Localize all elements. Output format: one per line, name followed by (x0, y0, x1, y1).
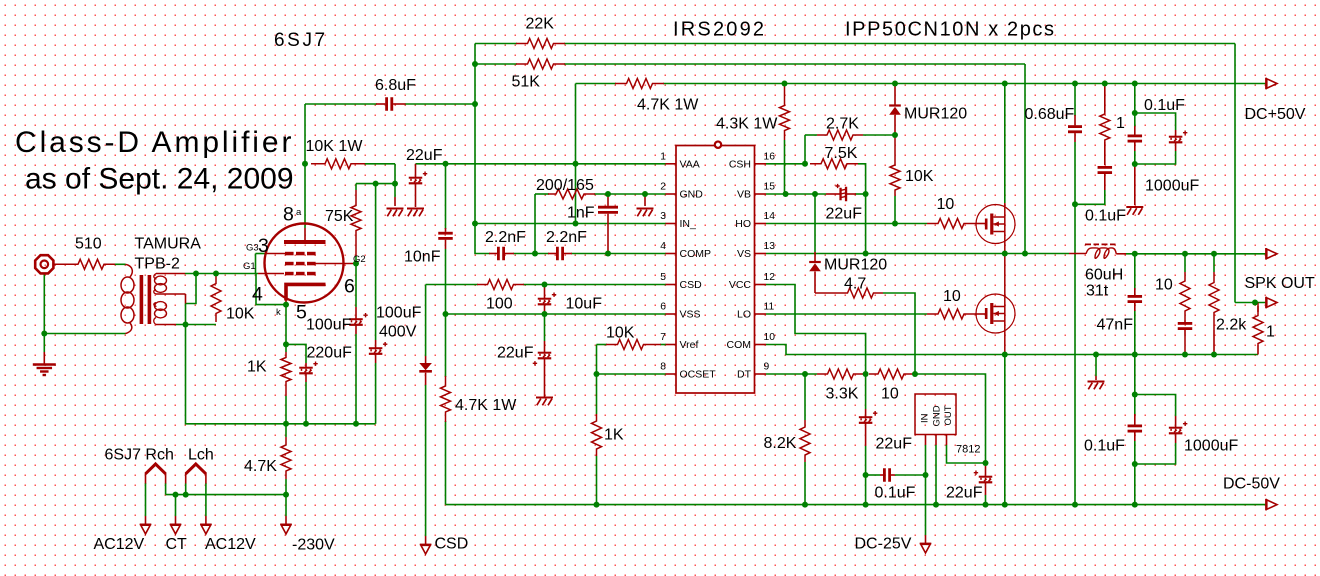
svg-text:COM: COM (727, 339, 752, 351)
svg-text:4.7K 1W: 4.7K 1W (455, 397, 517, 414)
svg-text:400V: 400V (379, 324, 417, 341)
svg-text:HO: HO (735, 218, 751, 230)
svg-text:22uF: 22uF (946, 485, 983, 502)
svg-text:47nF: 47nF (1097, 317, 1134, 334)
svg-text:G1: G1 (243, 261, 256, 272)
svg-text:10: 10 (764, 332, 776, 343)
svg-text:10: 10 (943, 288, 961, 305)
svg-text:510: 510 (75, 236, 102, 253)
svg-text:OUT: OUT (943, 405, 954, 425)
svg-text:1: 1 (1116, 115, 1125, 132)
svg-text:-230V: -230V (292, 537, 335, 554)
svg-text:CSH: CSH (729, 158, 751, 170)
svg-text:0.1uF: 0.1uF (875, 485, 916, 502)
svg-text:6.8uF: 6.8uF (375, 77, 416, 94)
svg-text:AC12V: AC12V (205, 536, 256, 553)
svg-text:1: 1 (1266, 324, 1275, 341)
svg-text:7812: 7812 (956, 444, 980, 456)
svg-text:CSD: CSD (435, 536, 469, 553)
svg-text:75K: 75K (325, 208, 354, 225)
svg-text:2.7K: 2.7K (826, 116, 859, 133)
svg-text:8.2K: 8.2K (764, 435, 797, 452)
svg-text:DT: DT (737, 369, 752, 381)
svg-text:51K: 51K (512, 74, 541, 91)
svg-text:13: 13 (764, 241, 776, 252)
svg-text:1K: 1K (247, 359, 267, 376)
svg-text:22uF: 22uF (876, 436, 913, 453)
svg-text:4.7K 1W: 4.7K 1W (637, 97, 699, 114)
svg-text:3.3K: 3.3K (826, 385, 859, 402)
svg-text:DC-25V: DC-25V (855, 536, 912, 553)
svg-text:MUR120: MUR120 (824, 257, 887, 274)
svg-text:IRS2092: IRS2092 (673, 19, 766, 41)
svg-text:100: 100 (486, 296, 513, 313)
svg-text:6: 6 (660, 302, 666, 313)
svg-text:10uF: 10uF (566, 296, 603, 313)
svg-text:2.2k: 2.2k (1216, 317, 1247, 334)
svg-text:DC-50V: DC-50V (1223, 476, 1280, 493)
svg-text:22K: 22K (526, 15, 555, 32)
svg-text:Class-D Amplifier: Class-D Amplifier (15, 126, 294, 159)
svg-text:1000uF: 1000uF (1145, 178, 1199, 195)
svg-text:OCSET: OCSET (680, 369, 717, 381)
svg-text:5: 5 (296, 302, 307, 324)
svg-text:0.68uF: 0.68uF (1025, 106, 1075, 123)
svg-text:LO: LO (737, 309, 751, 321)
svg-text:100uF: 100uF (306, 317, 352, 334)
svg-text:as of Sept. 24, 2009: as of Sept. 24, 2009 (25, 163, 294, 196)
svg-text:10: 10 (1155, 277, 1173, 294)
svg-text:15: 15 (764, 182, 776, 193)
svg-text:VSS: VSS (680, 309, 701, 321)
svg-text:CSD: CSD (680, 279, 703, 291)
svg-text:GND: GND (932, 405, 943, 426)
svg-text:10K: 10K (606, 325, 635, 342)
svg-text:22uF: 22uF (497, 344, 534, 361)
svg-text:9: 9 (764, 362, 770, 373)
svg-text:8: 8 (660, 362, 666, 373)
svg-text:10K: 10K (226, 306, 255, 323)
svg-text:AC12V: AC12V (94, 536, 145, 553)
svg-text:4: 4 (252, 284, 263, 306)
svg-text:31t: 31t (1086, 283, 1109, 300)
svg-text:0.1uF: 0.1uF (1085, 208, 1126, 225)
svg-text:VAA: VAA (680, 158, 700, 170)
svg-text:3: 3 (660, 211, 666, 222)
svg-text:10K 1W: 10K 1W (306, 138, 364, 155)
svg-text:IN: IN (920, 413, 931, 423)
svg-text:8: 8 (283, 204, 294, 226)
svg-text:16: 16 (764, 151, 776, 162)
svg-text:10: 10 (937, 196, 955, 213)
svg-text:6: 6 (344, 276, 355, 298)
svg-text:1: 1 (660, 151, 666, 162)
svg-text:1nF: 1nF (567, 205, 595, 222)
svg-text:2: 2 (660, 182, 666, 193)
svg-text:4.3K 1W: 4.3K 1W (716, 116, 778, 133)
svg-text:60uH: 60uH (1085, 266, 1123, 283)
svg-text:TAMURA: TAMURA (135, 236, 202, 253)
svg-text:0.1uF: 0.1uF (1144, 97, 1185, 114)
svg-text:G2: G2 (353, 254, 366, 265)
svg-text:100uF: 100uF (376, 305, 422, 322)
svg-text:5: 5 (660, 272, 666, 283)
svg-text:22uF: 22uF (826, 205, 863, 222)
svg-text:7: 7 (660, 332, 666, 343)
svg-text:6SJ7: 6SJ7 (274, 30, 328, 51)
svg-text:1K: 1K (604, 427, 624, 444)
svg-text:COMP: COMP (680, 248, 712, 260)
svg-text:MUR120: MUR120 (904, 106, 967, 123)
svg-text:4.7: 4.7 (844, 275, 866, 292)
svg-text:7.5K: 7.5K (825, 145, 858, 162)
svg-text:G3: G3 (246, 243, 259, 254)
svg-text:IPP50CN10N x 2pcs: IPP50CN10N x 2pcs (845, 19, 1056, 41)
svg-text:VS: VS (737, 248, 751, 260)
svg-text:10K: 10K (905, 168, 934, 185)
svg-text:11: 11 (764, 302, 775, 313)
svg-text:12: 12 (764, 272, 776, 283)
svg-text:4.7K: 4.7K (244, 458, 277, 475)
svg-text:0.1uF: 0.1uF (1084, 438, 1125, 455)
svg-text:a: a (296, 207, 302, 218)
svg-text:2.2nF: 2.2nF (546, 229, 587, 246)
svg-text:IN_: IN_ (680, 218, 697, 230)
svg-text:CT: CT (166, 536, 188, 553)
svg-text:200/165: 200/165 (536, 177, 594, 194)
svg-text:k: k (276, 307, 281, 318)
svg-text:1000uF: 1000uF (1184, 438, 1238, 455)
svg-text:220uF: 220uF (307, 345, 353, 362)
svg-text:VCC: VCC (729, 279, 752, 291)
svg-text:6SJ7 Rch: 6SJ7 Rch (105, 447, 174, 464)
svg-text:GND: GND (680, 189, 704, 201)
svg-text:10nF: 10nF (404, 249, 441, 266)
svg-text:3: 3 (258, 235, 269, 257)
svg-text:14: 14 (764, 211, 776, 222)
svg-text:VB: VB (737, 189, 751, 201)
svg-text:Lch: Lch (188, 447, 214, 464)
svg-text:SPK OUT: SPK OUT (1245, 275, 1315, 292)
svg-text:2.2nF: 2.2nF (485, 229, 526, 246)
svg-text:4: 4 (660, 241, 666, 252)
svg-text:DC+50V: DC+50V (1245, 106, 1306, 123)
svg-text:10: 10 (881, 385, 899, 402)
svg-text:TPB-2: TPB-2 (135, 256, 180, 273)
svg-text:22uF: 22uF (406, 147, 443, 164)
svg-text:Vref: Vref (680, 339, 699, 351)
